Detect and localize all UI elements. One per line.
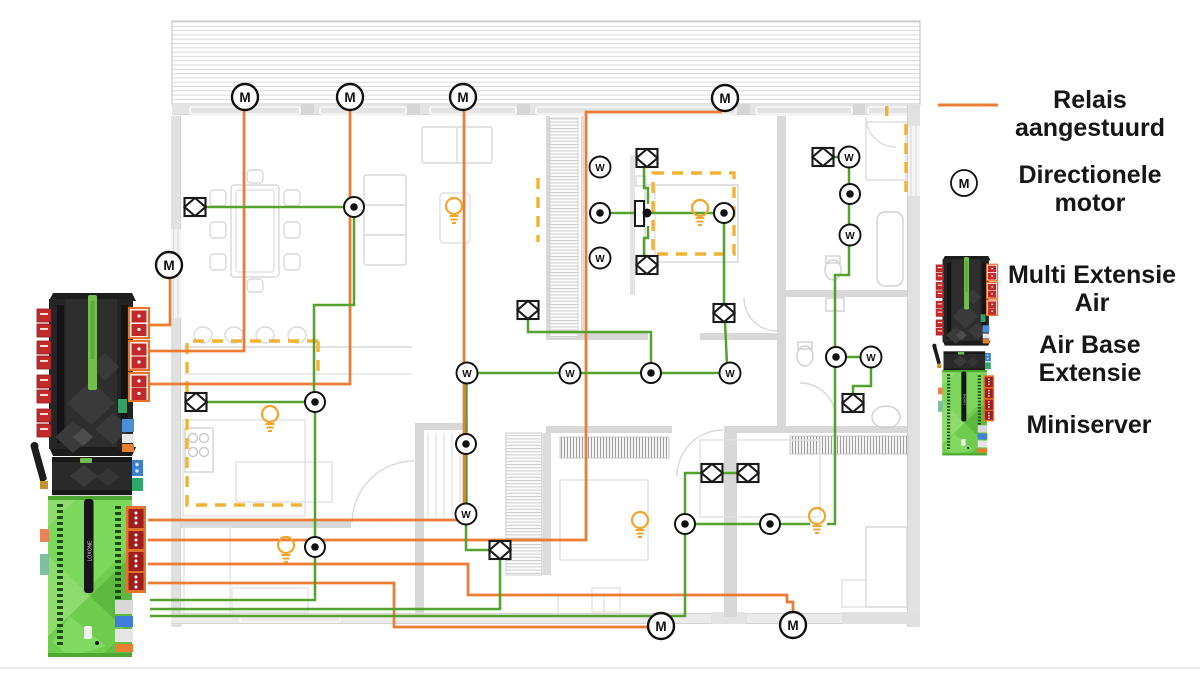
window top 4 — [536, 104, 750, 115]
closet hatch bedroom1 — [550, 118, 578, 338]
box symbol bath1 — [813, 148, 834, 166]
dining table — [231, 185, 279, 277]
sofa top — [422, 127, 492, 163]
legend motor circle — [951, 170, 977, 196]
motor M2 top — [232, 84, 258, 110]
bed bedroom2 — [560, 480, 648, 560]
wire miniserver to motor M6 bottom — [148, 583, 648, 627]
W switch bath1 lower — [840, 225, 861, 246]
svg-text:Directionele: Directionele — [1018, 161, 1161, 189]
wire bedroom1 point down to box — [723, 222, 726, 303]
wire miniserver to motor M5 top right — [148, 112, 722, 540]
W switch bath2 — [861, 347, 882, 368]
svg-text:W: W — [595, 254, 605, 265]
wire kitchen point down to miniserver — [150, 410, 315, 600]
box symbol stairs — [518, 301, 539, 319]
wire stair box to corridor point — [528, 320, 651, 366]
W switch bedroom1 top — [590, 157, 611, 178]
box symbol bath2 — [843, 394, 864, 412]
bed1/bath1 wall — [777, 116, 786, 433]
point bedroom1 right — [714, 203, 734, 223]
point bedroom1 left — [590, 203, 610, 223]
box symbol kitchen — [186, 393, 207, 411]
box symbol bedroom1 bottom — [637, 256, 658, 274]
box symbol bedroom1 top — [637, 149, 658, 167]
svg-text:Relais: Relais — [1053, 86, 1127, 114]
miniserver legend — [938, 370, 994, 455]
door arc bedroom1 — [744, 298, 777, 331]
bottom rooms middle wall — [724, 433, 737, 617]
motor M3 top — [337, 84, 363, 110]
box symbol living — [185, 198, 206, 216]
low cabinet lower-left room — [232, 588, 308, 612]
box symbol bedroom3 — [738, 464, 759, 482]
svg-text:Miniserver: Miniserver — [1026, 411, 1151, 439]
door arc bath2 — [800, 383, 836, 419]
miniserver left — [40, 496, 146, 657]
staircase — [506, 433, 542, 575]
W switch corridor left — [457, 363, 478, 384]
motor M4 top — [450, 84, 476, 110]
wire relay to motor M2 top — [148, 100, 244, 351]
door arc top-right room — [866, 117, 896, 147]
dashed zone kitchen right stub — [316, 341, 319, 372]
wire bedroom2 box left — [685, 473, 702, 515]
interior wall hall left — [415, 423, 424, 617]
toilet bath2 — [797, 346, 813, 366]
lamp hall — [278, 537, 294, 562]
window top 5 — [756, 104, 865, 115]
svg-text:M: M — [457, 90, 468, 105]
bottom rooms top wall right — [724, 426, 907, 433]
svg-text:W: W — [565, 369, 575, 380]
yellow tick top wall — [885, 106, 888, 116]
entrance steps — [558, 595, 604, 617]
lamp bedroom1 — [692, 200, 708, 225]
bed1 bottom wall — [546, 333, 648, 340]
window top 2 — [320, 104, 420, 115]
svg-text:Multi Extensie: Multi Extensie — [1008, 261, 1176, 289]
interior wall living/bed1 — [546, 116, 550, 340]
wire miniserver to bedroom2 point — [150, 532, 685, 616]
wire bedroom3 point to lamp — [778, 523, 810, 526]
wire between bedroom2 boxes — [722, 472, 737, 475]
wire kitchen box to kitchen point — [207, 401, 308, 404]
bed1 bottom wall right part — [700, 333, 777, 340]
stove — [185, 428, 213, 472]
point living — [344, 197, 364, 217]
svg-text:M: M — [719, 91, 730, 106]
bottom rooms top wall left — [546, 426, 672, 433]
dining chairs — [210, 190, 226, 206]
point hall — [305, 537, 325, 557]
point corridor — [641, 363, 661, 383]
top exterior wall band — [172, 104, 920, 115]
motor M7 bottom — [780, 612, 806, 638]
point kitchen — [305, 392, 325, 412]
box symbol bedroom2 — [702, 464, 723, 482]
wire bedroom1 box top stub — [644, 168, 648, 204]
terrace hatched roof area — [172, 21, 920, 105]
multi extensie air legend — [936, 256, 998, 346]
bed bedroom1 — [645, 185, 738, 262]
dashed zone kitchen — [187, 341, 318, 505]
wire relay to motor M1 left — [148, 266, 170, 325]
wire W column green — [465, 381, 468, 510]
W switch bedroom1 bottom — [590, 248, 611, 269]
svg-text:W: W — [844, 153, 854, 164]
dashed marks right wall — [904, 124, 907, 195]
window top 1 — [190, 104, 314, 115]
wire bath2 W to box — [853, 366, 871, 393]
svg-text:M: M — [655, 619, 666, 634]
closet wall bed1 left — [581, 116, 584, 340]
shower glass hall — [428, 433, 460, 518]
bath1/bath2 wall — [781, 290, 907, 297]
shower top-right — [866, 122, 906, 180]
wire living switch to ceiling point — [205, 206, 348, 209]
svg-text:motor: motor — [1055, 189, 1126, 217]
motor M5 top right — [712, 85, 738, 111]
svg-text:Extensie: Extensie — [1039, 359, 1142, 387]
separator line bottom page — [0, 667, 1200, 669]
svg-text:W: W — [866, 353, 876, 364]
motor M6 bottom — [648, 613, 674, 639]
lamp kitchen — [262, 406, 278, 431]
lamp bedroom3 — [809, 508, 825, 533]
legend relay line — [938, 104, 998, 107]
sofa right — [364, 175, 406, 265]
desk bedroom3 — [866, 527, 907, 607]
left exterior wall — [171, 116, 181, 627]
stairs right wall — [543, 433, 551, 575]
svg-text:Air: Air — [1075, 289, 1110, 317]
wire bedroom1 point to switch — [610, 212, 636, 215]
wire bedroom1 box down to W — [725, 322, 727, 365]
wire bedroom2 points link — [694, 523, 762, 526]
bar counter — [184, 346, 412, 348]
svg-text:Air Base: Air Base — [1039, 331, 1141, 359]
window top 6 — [868, 107, 914, 114]
wire bath1 box to W link — [834, 156, 840, 159]
box symbol corridor — [714, 304, 735, 322]
W switch corridor right — [720, 363, 741, 384]
svg-text:aangestuurd: aangestuurd — [1015, 114, 1165, 142]
W switch hall — [456, 504, 477, 525]
wire hall box to W switch — [466, 522, 490, 550]
wardrobe hatch bedroom2 — [560, 437, 669, 458]
bath oval bedroom3 — [872, 406, 900, 428]
svg-text:W: W — [462, 369, 472, 380]
W switch corridor mid — [560, 363, 581, 384]
kitchen counter — [183, 420, 305, 516]
hall top wall stub — [424, 423, 468, 430]
cabinet lower-left room — [184, 527, 230, 615]
kitchen bottom wall — [181, 521, 351, 528]
point bath1 — [840, 184, 860, 204]
wire living point to kitchen point — [314, 216, 354, 396]
svg-text:W: W — [595, 163, 605, 174]
svg-text:M: M — [163, 258, 174, 273]
wire miniserver to hall box — [150, 560, 500, 609]
air base extensie legend — [932, 344, 991, 374]
multi extensie air left — [37, 293, 149, 456]
right wall window gap — [908, 126, 920, 196]
point bedroom3 — [760, 514, 780, 534]
left wall window gap — [171, 229, 181, 318]
W switch bath1 — [839, 147, 860, 168]
svg-text:W: W — [725, 369, 735, 380]
wire bath2 point to W link — [845, 356, 862, 359]
switch symbol bedroom1 — [635, 201, 652, 226]
bar stools — [194, 327, 212, 343]
wire bath1 W down to bedroom3 lamp — [827, 166, 849, 524]
point W column — [456, 434, 476, 454]
lamp bedroom2 — [632, 512, 648, 537]
kitchen island — [236, 462, 332, 502]
dashed zone bedroom1 — [653, 173, 734, 254]
lamp living — [446, 198, 462, 223]
bed bedroom3 — [700, 440, 820, 517]
washbasin bath2 — [826, 298, 844, 311]
right exterior wall — [907, 105, 920, 627]
bottom wall window — [240, 612, 747, 624]
wire miniserver to W switch — [148, 519, 458, 522]
tv cabinet — [440, 193, 470, 243]
point bedroom2 — [675, 514, 695, 534]
door arc hall — [352, 461, 414, 523]
bathtub bath1 — [877, 212, 903, 286]
wire miniserver to motor M7 bottom right — [148, 564, 793, 612]
wire motor M4 down through W column — [463, 101, 466, 512]
dashed marks closet left — [536, 178, 539, 242]
svg-text:W: W — [461, 510, 471, 521]
motor M1 left wall — [156, 252, 182, 278]
svg-text:M: M — [344, 90, 355, 105]
svg-text:M: M — [239, 90, 250, 105]
wire bedroom1 box bottom stub — [644, 226, 648, 255]
bottom exterior wall — [171, 613, 920, 624]
svg-text:W: W — [845, 231, 855, 242]
wire bedroom1 switch to point — [647, 212, 715, 215]
window top 3 — [430, 104, 530, 115]
air base extensie left — [31, 442, 144, 499]
point bath2 — [826, 347, 846, 367]
wire corridor green main — [467, 372, 730, 375]
wire relay to motor M3 top — [148, 100, 350, 384]
toilet bath1 — [825, 260, 841, 280]
box symbol hall — [490, 541, 511, 559]
wardrobe hatch bedroom3 — [790, 436, 908, 454]
svg-text:M: M — [787, 618, 798, 633]
svg-text:M: M — [959, 176, 970, 191]
door arc bedroom2 — [677, 430, 723, 476]
